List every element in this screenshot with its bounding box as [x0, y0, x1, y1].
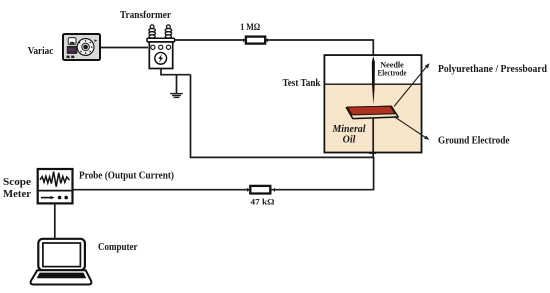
svg-text:Computer: Computer	[98, 242, 138, 253]
svg-text:Probe (Output Current): Probe (Output Current)	[79, 171, 174, 182]
svg-text:Scope: Scope	[3, 177, 32, 188]
svg-text:Meter: Meter	[3, 189, 32, 200]
svg-text:1 MΩ: 1 MΩ	[240, 22, 260, 32]
svg-text:47 kΩ: 47 kΩ	[251, 198, 275, 207]
svg-text:Ground Electrode: Ground Electrode	[438, 135, 510, 147]
svg-text:Oil: Oil	[343, 135, 356, 146]
svg-text:Test Tank: Test Tank	[283, 77, 322, 89]
svg-text:Variac: Variac	[28, 45, 54, 57]
svg-text:Mineral: Mineral	[332, 124, 366, 135]
svg-text:Electrode: Electrode	[378, 69, 407, 78]
svg-text:Polyurethane / Pressboard: Polyurethane / Pressboard	[438, 63, 547, 75]
svg-text:Transformer: Transformer	[120, 9, 171, 21]
